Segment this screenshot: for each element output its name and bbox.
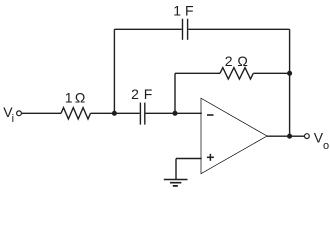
wire output branch vertical bbox=[289, 29, 291, 136]
svg-text:1: 1 bbox=[173, 3, 181, 19]
svg-text:Ω: Ω bbox=[75, 90, 85, 106]
node A (junction dot) bbox=[112, 111, 117, 116]
wire op-amp output to node D bbox=[267, 135, 290, 137]
op-amp U1 bbox=[201, 98, 267, 174]
value label 2F bbox=[131, 86, 152, 102]
wire non-inverting input down to ground bbox=[175, 159, 177, 180]
wire Vi terminal to R 1ohm bbox=[22, 112, 61, 114]
node B (junction dot, inverting input node) bbox=[172, 111, 177, 116]
svg-text:o: o bbox=[323, 140, 329, 152]
svg-text:i: i bbox=[12, 113, 14, 125]
svg-text:F: F bbox=[185, 3, 194, 19]
wire capacitor 2F to node B bbox=[146, 112, 176, 114]
op-amp inverting input marker - bbox=[207, 114, 214, 116]
wire top feedback right segment bbox=[188, 28, 289, 30]
value label 2 ohm bbox=[225, 53, 248, 69]
wire top feedback left segment bbox=[114, 28, 181, 30]
wire node B to op-amp inverting input bbox=[175, 112, 202, 114]
capacitor 2F bbox=[140, 103, 144, 125]
wire node A up to top feedback (capacitor 1F) bbox=[113, 29, 115, 113]
resistor 1 ohm bbox=[61, 108, 91, 119]
capacitor 1F bbox=[183, 19, 188, 40]
node C (junction dot on output branch) bbox=[287, 71, 292, 76]
value label 1 ohm bbox=[65, 90, 86, 106]
wire feedback left segment bbox=[175, 72, 220, 74]
value label 1F bbox=[173, 3, 193, 19]
node D (output junction dot) bbox=[287, 134, 292, 139]
output terminal Vo bbox=[305, 134, 310, 139]
wire R 1ohm to node A bbox=[91, 112, 115, 114]
svg-text:1: 1 bbox=[65, 90, 73, 106]
label Vi bbox=[3, 104, 14, 125]
svg-text:2: 2 bbox=[131, 86, 139, 102]
svg-text:2: 2 bbox=[225, 53, 233, 69]
svg-text:Ω: Ω bbox=[237, 53, 247, 69]
op-amp non-inverting input marker + bbox=[207, 154, 214, 161]
resistor 2 ohm (feedback) bbox=[220, 68, 253, 79]
wire node B up to feedback resistor bbox=[174, 73, 176, 113]
wire node D to Vo terminal bbox=[290, 135, 305, 137]
input terminal Vi bbox=[17, 111, 22, 116]
wire feedback right segment to node C bbox=[253, 72, 289, 74]
wire node A to capacitor 2F bbox=[114, 112, 139, 114]
svg-text:F: F bbox=[144, 86, 153, 102]
label Vo bbox=[314, 130, 329, 152]
wire op-amp non-inverting input bbox=[176, 158, 202, 160]
ground bbox=[164, 180, 188, 186]
